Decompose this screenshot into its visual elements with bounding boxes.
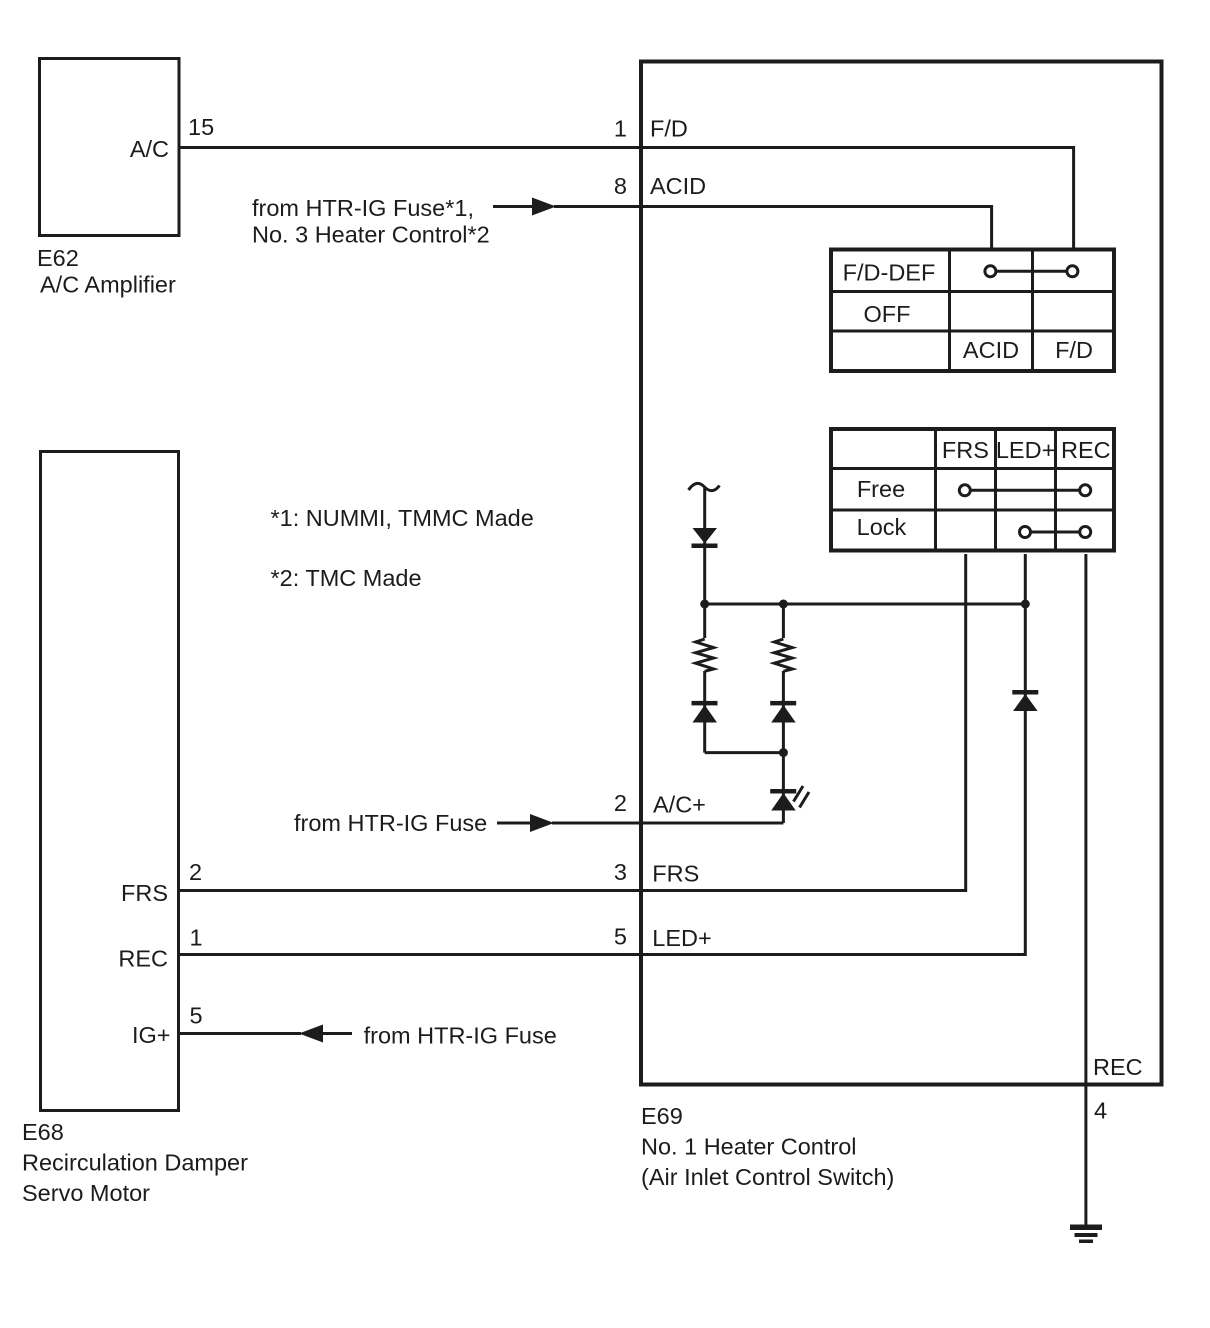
svg-text:Lock: Lock	[857, 514, 907, 540]
label (Air Inlet Control Switch)	[641, 1164, 894, 1190]
label F/D (table)	[1055, 337, 1093, 363]
connector E68 Recirculation Damper Servo Motor box	[41, 452, 179, 1111]
svg-text:Free: Free	[857, 476, 905, 502]
arrowhead into pin 8	[532, 198, 556, 216]
label A/C Amplifier	[40, 272, 176, 298]
label LED+ (table header)	[996, 437, 1055, 463]
label LED+ (E69 pin name)	[652, 925, 711, 951]
arrowhead into pin 2	[530, 814, 554, 832]
pin 8 label (E69)	[614, 173, 627, 199]
squiggle continuation symbol at top of lamp branch	[689, 483, 720, 490]
svg-text:5: 5	[190, 1003, 203, 1029]
svg-text:1: 1	[614, 116, 627, 142]
pin 2 label (E68)	[189, 859, 202, 885]
diode D1 pointing down (lamp branch)	[692, 528, 718, 548]
wire pin3 FRS from E68 to switch FRS column	[179, 554, 966, 891]
LED indicator diode with rays	[770, 786, 809, 811]
label A/C+ (E69 pin name)	[653, 792, 706, 818]
svg-text:LED+: LED+	[996, 437, 1055, 463]
switch table F/D-DEF / OFF / ACID / F/D	[830, 249, 1115, 371]
label REC (E69 pin name, bottom)	[1093, 1054, 1143, 1080]
wire right branch bus to resistor	[782, 604, 785, 638]
wire REC column down through box to ground	[1084, 554, 1087, 1225]
svg-text:F/D-DEF: F/D-DEF	[843, 260, 936, 286]
label Free	[857, 476, 905, 502]
label ACID (E69 pin name)	[650, 173, 706, 199]
wire pin5 LED+ from E68 to diode branch under switch	[179, 554, 1025, 955]
wire pin15 E62 to pin1 F/D of E69, turns down into switch right column	[179, 148, 1074, 250]
svg-text:FRS: FRS	[942, 437, 989, 463]
wire arrow tail into pin 8	[493, 205, 533, 208]
svg-text:REC: REC	[118, 946, 168, 972]
wire resistor to diode D2	[703, 671, 706, 753]
svg-text:REC: REC	[1061, 437, 1111, 463]
switch contact F/D-DEF row	[985, 266, 1078, 277]
svg-text:from HTR-IG Fuse: from HTR-IG Fuse	[294, 810, 487, 836]
svg-text:2: 2	[614, 790, 627, 816]
junction node at bus / LED+ column	[1021, 600, 1030, 609]
wire resistor to LED	[782, 671, 785, 823]
svg-text:from HTR-IG Fuse: from HTR-IG Fuse	[364, 1023, 557, 1049]
svg-text:from HTR-IG Fuse*1,: from HTR-IG Fuse*1,	[252, 195, 474, 221]
label from HTR-IG Fuse (A/C+ feed)	[294, 810, 487, 836]
connector E62 A/C Amplifier box	[40, 59, 180, 236]
label OFF	[864, 301, 911, 327]
svg-text:8: 8	[614, 173, 627, 199]
junction node at right branch / bus	[779, 600, 788, 609]
label Servo Motor	[22, 1180, 150, 1206]
svg-text:*2: TMC Made: *2: TMC Made	[271, 565, 422, 591]
label IG+ (E68 pin name)	[132, 1022, 171, 1048]
label from HTR-IG Fuse (IG+ feed)	[364, 1023, 557, 1049]
bus wire across branches	[705, 603, 1026, 606]
switch table FRS / LED+ / REC with Free / Lock rows	[830, 428, 1115, 551]
svg-text:1: 1	[190, 925, 203, 951]
note *1: NUMMI, TMMC Made	[271, 505, 534, 531]
wire squiggle down to bus junction	[703, 488, 706, 604]
svg-text:4: 4	[1094, 1098, 1107, 1124]
pin 1 label (E69)	[614, 116, 627, 142]
svg-text:(Air Inlet Control Switch): (Air Inlet Control Switch)	[641, 1164, 894, 1190]
label REC (table header)	[1061, 437, 1111, 463]
label ACID (table)	[963, 337, 1019, 363]
svg-text:Recirculation Damper: Recirculation Damper	[22, 1150, 248, 1176]
svg-text:2: 2	[189, 859, 202, 885]
diode D4 pointing up (LED+ column)	[1012, 690, 1038, 711]
svg-text:3: 3	[614, 859, 627, 885]
label from HTR-IG Fuse*1,	[252, 195, 474, 221]
svg-text:No. 1 Heater Control: No. 1 Heater Control	[641, 1134, 857, 1160]
label Lock	[857, 514, 907, 540]
diode D3 pointing up (right branch)	[770, 701, 796, 723]
pin 5 label (E68)	[190, 1003, 203, 1029]
arrowhead pointing left on IG+ wire	[299, 1025, 323, 1043]
wire pin 2 A/C+ to LED branch	[552, 822, 783, 825]
switch contact Free row FRS-REC	[959, 485, 1090, 496]
svg-text:A/C Amplifier: A/C Amplifier	[40, 272, 176, 298]
svg-text:LED+: LED+	[652, 925, 711, 951]
label FRS (table header)	[942, 437, 989, 463]
pin 15 label	[188, 114, 214, 140]
label A/C (pin name inside E62)	[130, 136, 169, 162]
svg-text:REC: REC	[1093, 1054, 1143, 1080]
note *2: TMC Made	[271, 565, 422, 591]
label F/D (E69 pin name)	[650, 116, 688, 142]
pin 4 label (E69)	[1094, 1098, 1107, 1124]
svg-text:E69: E69	[641, 1103, 683, 1129]
diode D2 pointing up (left branch)	[692, 701, 718, 723]
svg-text:5: 5	[614, 924, 627, 950]
svg-text:F/D: F/D	[1055, 337, 1093, 363]
svg-text:F/D: F/D	[650, 116, 688, 142]
svg-text:E68: E68	[22, 1119, 64, 1145]
pin 1 label (E68)	[190, 925, 203, 951]
svg-text:OFF: OFF	[864, 301, 911, 327]
resistor R2 (right branch)	[774, 639, 792, 671]
wire arrow tail IG+	[322, 1032, 352, 1035]
label F/D-DEF	[843, 260, 936, 286]
pin 3 label (E69)	[614, 859, 627, 885]
label FRS (E68 pin name)	[121, 880, 168, 906]
label No. 1 Heater Control	[641, 1134, 857, 1160]
wire arrow tail into pin 2	[497, 822, 531, 825]
label Recirculation Damper	[22, 1150, 248, 1176]
resistor R1 (left branch)	[696, 639, 714, 671]
svg-text:ACID: ACID	[963, 337, 1019, 363]
svg-text:E62: E62	[37, 245, 79, 271]
wire IG+ from E68 with arrow from HTR-IG Fuse	[179, 1032, 301, 1035]
svg-text:*1: NUMMI, TMMC Made: *1: NUMMI, TMMC Made	[271, 505, 534, 531]
svg-text:FRS: FRS	[652, 861, 699, 887]
label REC (E68 pin name)	[118, 946, 168, 972]
junction node at left branch / bus	[700, 600, 709, 609]
svg-text:FRS: FRS	[121, 880, 168, 906]
pin 5 label (E69)	[614, 924, 627, 950]
svg-text:No. 3 Heater Control*2: No. 3 Heater Control*2	[252, 222, 490, 248]
svg-text:15: 15	[188, 114, 214, 140]
wire left branch to junction with right branch	[705, 751, 784, 754]
svg-text:ACID: ACID	[650, 173, 706, 199]
wire left branch bus to resistor	[703, 604, 706, 638]
pin 2 label (E69)	[614, 790, 627, 816]
junction node left/right branch merge	[779, 748, 788, 757]
label No. 3 Heater Control*2	[252, 222, 490, 248]
label FRS (E69 pin name)	[652, 861, 699, 887]
svg-text:IG+: IG+	[132, 1022, 171, 1048]
ground symbol	[1070, 1225, 1102, 1244]
svg-text:A/C: A/C	[130, 136, 169, 162]
connector E69 No.1 Heater Control box	[641, 62, 1162, 1085]
switch contact Lock row LED+-REC	[1020, 527, 1091, 538]
label E69	[641, 1103, 683, 1129]
svg-text:Servo Motor: Servo Motor	[22, 1180, 150, 1206]
label E62	[37, 245, 79, 271]
svg-text:A/C+: A/C+	[653, 792, 706, 818]
wire pin8 ACID into switch middle column	[554, 207, 992, 250]
label E68	[22, 1119, 64, 1145]
